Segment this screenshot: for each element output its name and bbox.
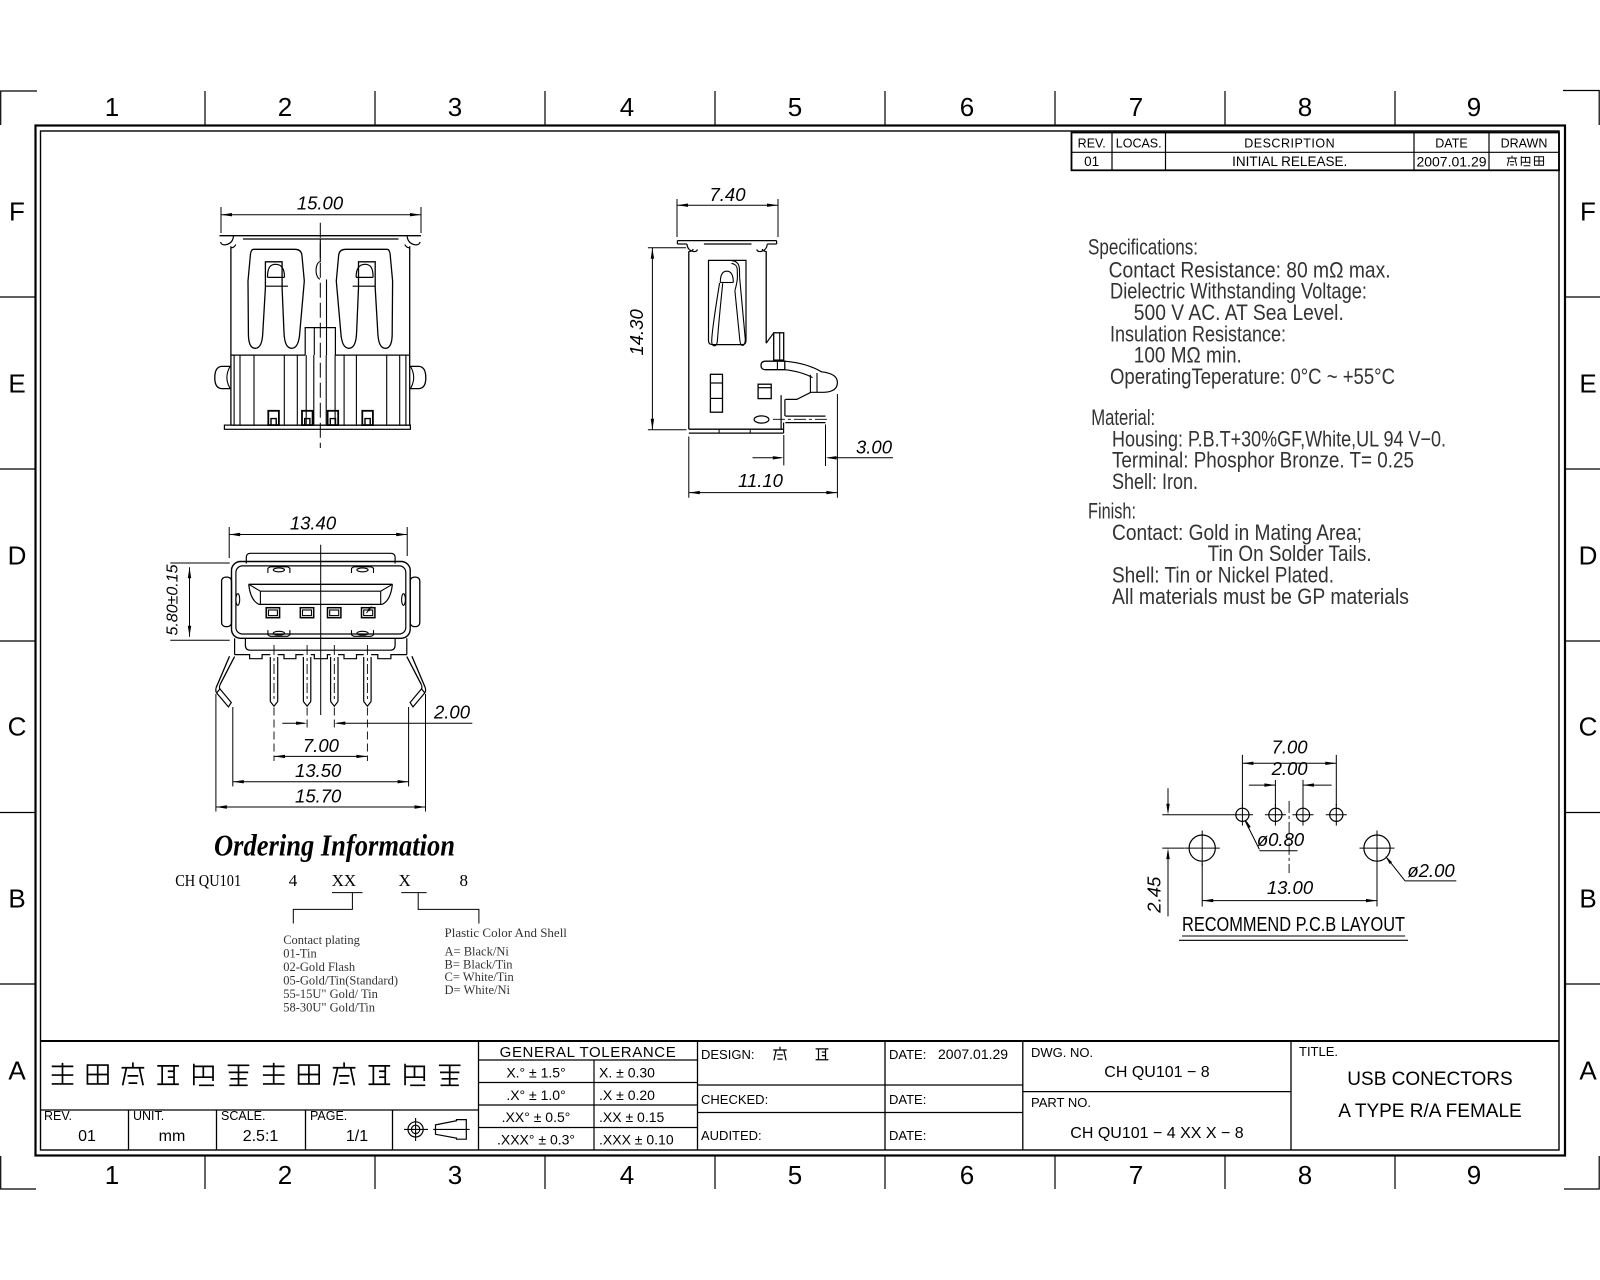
svg-text:F: F <box>9 197 25 227</box>
svg-text:1: 1 <box>105 92 119 122</box>
svg-text:Shell: Iron.: Shell: Iron. <box>1112 469 1198 494</box>
svg-text:2007.01.29: 2007.01.29 <box>938 1046 1008 1062</box>
svg-text:CH QU101 − 8: CH QU101 − 8 <box>1104 1064 1209 1081</box>
svg-text:DRAWN: DRAWN <box>1501 137 1548 151</box>
svg-text:3: 3 <box>448 1160 462 1190</box>
svg-text:13.40: 13.40 <box>290 513 337 534</box>
svg-text:GENERAL TOLERANCE: GENERAL TOLERANCE <box>500 1044 677 1061</box>
svg-text:REV.: REV. <box>44 1109 72 1123</box>
svg-text:Plastic Color And Shell: Plastic Color And Shell <box>445 925 568 940</box>
svg-text:13.50: 13.50 <box>295 760 342 781</box>
svg-text:D= White/Ni: D= White/Ni <box>445 983 511 997</box>
svg-text:5: 5 <box>788 92 802 122</box>
svg-text:7.00: 7.00 <box>303 735 340 756</box>
svg-text:58-30U" Gold/Tin: 58-30U" Gold/Tin <box>283 1001 376 1015</box>
svg-text:.X ± 0.20: .X ± 0.20 <box>599 1087 655 1103</box>
svg-text:DWG. NO.: DWG. NO. <box>1031 1045 1093 1060</box>
svg-text:5: 5 <box>788 1160 802 1190</box>
svg-text:2: 2 <box>278 92 292 122</box>
svg-text:7.40: 7.40 <box>709 184 746 205</box>
svg-text:14.30: 14.30 <box>626 309 647 356</box>
svg-text:ø0.80: ø0.80 <box>1257 829 1305 850</box>
svg-text:.XX° ± 0.5°: .XX° ± 0.5° <box>502 1109 571 1125</box>
svg-text:XX: XX <box>332 871 357 890</box>
svg-text:Specifications:: Specifications: <box>1088 235 1198 260</box>
svg-text:USB CONECTORS: USB CONECTORS <box>1347 1069 1512 1090</box>
svg-text:01: 01 <box>1084 154 1099 169</box>
svg-text:3.00: 3.00 <box>856 437 893 458</box>
svg-text:UNIT.: UNIT. <box>133 1109 164 1123</box>
svg-text:A TYPE R/A FEMALE: A TYPE R/A FEMALE <box>1338 1101 1521 1122</box>
svg-text:D: D <box>1579 541 1598 571</box>
svg-text:15.00: 15.00 <box>297 193 344 214</box>
svg-text:.X° ± 1.0°: .X° ± 1.0° <box>506 1087 565 1103</box>
svg-text:X: X <box>399 871 411 890</box>
svg-text:9: 9 <box>1467 1160 1481 1190</box>
svg-text:DATE:: DATE: <box>889 1092 926 1107</box>
svg-text:C: C <box>8 712 27 742</box>
svg-text:02-Gold Flash: 02-Gold Flash <box>283 960 356 974</box>
svg-text:A: A <box>1579 1056 1597 1086</box>
svg-text:CHECKED:: CHECKED: <box>701 1092 768 1107</box>
svg-text:DATE:: DATE: <box>889 1047 926 1062</box>
svg-text:X.° ± 1.5°: X.° ± 1.5° <box>506 1065 565 1081</box>
svg-text:1/1: 1/1 <box>346 1128 368 1145</box>
svg-text:2007.01.29: 2007.01.29 <box>1416 154 1486 170</box>
svg-text:E: E <box>8 369 25 399</box>
svg-text:11.10: 11.10 <box>738 470 784 491</box>
svg-text:D: D <box>8 541 27 571</box>
svg-text:All materials must be GP: All materials must be GP materials <box>1112 584 1409 609</box>
svg-text:A: A <box>8 1056 26 1086</box>
svg-text:TITLE.: TITLE. <box>1299 1044 1338 1059</box>
svg-text:13.00: 13.00 <box>1267 877 1314 898</box>
svg-text:SCALE.: SCALE. <box>221 1109 265 1123</box>
svg-text:RECOMMEND P.C.B LAYOUT: RECOMMEND P.C.B LAYOUT <box>1182 914 1405 936</box>
svg-text:8: 8 <box>1298 92 1312 122</box>
svg-text:9: 9 <box>1467 92 1481 122</box>
svg-text:C: C <box>1579 712 1598 742</box>
svg-text:4: 4 <box>289 871 298 890</box>
svg-text:2.45: 2.45 <box>1144 876 1165 914</box>
svg-text:1: 1 <box>105 1160 119 1190</box>
svg-text:6: 6 <box>960 1160 974 1190</box>
svg-text:4: 4 <box>620 1160 634 1190</box>
svg-text:55-15U" Gold/ Tin: 55-15U" Gold/ Tin <box>283 987 378 1001</box>
svg-text:2.5:1: 2.5:1 <box>243 1128 279 1145</box>
svg-text:Contact plating: Contact plating <box>283 933 360 947</box>
svg-text:2: 2 <box>278 1160 292 1190</box>
svg-text:B: B <box>1579 884 1596 914</box>
svg-text:Ordering Information: Ordering Information <box>214 827 455 862</box>
svg-text:REV.: REV. <box>1078 137 1106 151</box>
svg-text:7: 7 <box>1129 1160 1143 1190</box>
svg-text:CH QU101: CH QU101 <box>175 871 241 890</box>
svg-text:DESCRIPTION: DESCRIPTION <box>1244 137 1335 151</box>
svg-text:6: 6 <box>960 92 974 122</box>
svg-text:5.80±0.15: 5.80±0.15 <box>165 564 182 635</box>
svg-text:2.00: 2.00 <box>433 702 471 723</box>
svg-text:INITIAL RELEASE.: INITIAL RELEASE. <box>1232 154 1347 169</box>
svg-text:X. ± 0.30: X. ± 0.30 <box>599 1065 655 1081</box>
svg-text:4: 4 <box>620 92 634 122</box>
svg-text:15.70: 15.70 <box>295 786 342 807</box>
svg-text:OperatingTeperature: 0°C ~: OperatingTeperature: 0°C ~ +55°C <box>1110 364 1395 389</box>
svg-text:F: F <box>1580 197 1596 227</box>
svg-text:.XX ± 0.15: .XX ± 0.15 <box>599 1109 664 1125</box>
svg-text:7: 7 <box>1129 92 1143 122</box>
svg-text:B: B <box>8 884 25 914</box>
svg-text:8: 8 <box>1298 1160 1312 1190</box>
svg-text:E: E <box>1579 369 1596 399</box>
svg-text:PART NO.: PART NO. <box>1031 1095 1091 1110</box>
svg-text:3: 3 <box>448 92 462 122</box>
svg-text:mm: mm <box>159 1128 186 1145</box>
svg-text:ø2.00: ø2.00 <box>1407 860 1455 881</box>
svg-text:CH QU101 − 4 XX X − 8: CH QU101 − 4 XX X − 8 <box>1070 1125 1244 1142</box>
svg-text:PAGE.: PAGE. <box>310 1109 347 1123</box>
svg-text:.XXX ± 0.10: .XXX ± 0.10 <box>599 1131 674 1147</box>
svg-text:DESIGN:: DESIGN: <box>701 1047 754 1062</box>
svg-text:DATE:: DATE: <box>889 1128 926 1143</box>
svg-text:DATE: DATE <box>1435 137 1467 151</box>
svg-text:7.00: 7.00 <box>1272 737 1309 758</box>
svg-text:05-Gold/Tin(Standard): 05-Gold/Tin(Standard) <box>283 974 398 988</box>
svg-text:01: 01 <box>78 1128 96 1145</box>
svg-text:01-Tin: 01-Tin <box>283 947 317 961</box>
svg-text:AUDITED:: AUDITED: <box>701 1128 762 1143</box>
svg-text:LOCAS.: LOCAS. <box>1116 137 1162 151</box>
svg-text:2.00: 2.00 <box>1271 758 1309 779</box>
svg-text:.XXX° ± 0.3°: .XXX° ± 0.3° <box>497 1131 575 1147</box>
svg-text:8: 8 <box>459 871 468 890</box>
